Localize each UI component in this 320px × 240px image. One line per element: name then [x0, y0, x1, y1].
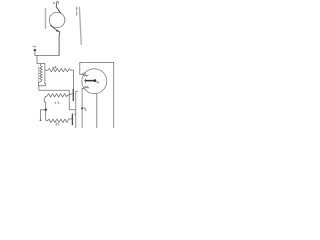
wire (R26 right lead to C1 plate) [67, 94, 73, 96]
label (patent header vertical text, right edge) [79, 7, 81, 44]
anode arrow tail tick [84, 79, 86, 83]
wire (R24 right lead going down) [71, 70, 74, 89]
wire (top lead of M1) [56, 1, 61, 13]
transformer winding zigzag [39, 66, 42, 82]
node (anode dot) [94, 79, 97, 82]
resistor R28 (bottom horizontal) [46, 119, 70, 123]
node (dot on cathode lead) [81, 107, 83, 109]
wire (left divider line down from R26) [44, 97, 46, 120]
resistor R26 (middle horizontal) [46, 94, 68, 97]
label 31 (right of anode dot) [97, 82, 99, 84]
terminal (blob at end of branch) [40, 119, 42, 121]
label 30 (inside tube upper-left) [83, 72, 86, 74]
resistor R24 (top horizontal) [45, 68, 71, 71]
wire (tube bottom centre lead down) [96, 94, 98, 128]
terminal (battery terminal dot) [34, 49, 37, 52]
wire (right line of capacitors going to bottom) [76, 91, 78, 128]
wire (box top y=62.4) [80, 61, 114, 63]
label (small mark near header) [76, 7, 78, 15]
capacitor C1 (left plate, thick) [72, 89, 74, 100]
wire (cathode lead down left) [81, 88, 83, 128]
label 20 (above M1 lead) [54, 1, 59, 3]
label (vertical text column left of M1) [45, 9, 47, 29]
wire (riser jog to winding top) [40, 64, 42, 66]
label 24 (above R24) [53, 66, 56, 68]
wire (transformer bottom to capacitor, y=90.3) [38, 86, 75, 110]
node (junction dot on divider) [45, 108, 48, 111]
capacitor C2 (left plate, thick) [71, 114, 73, 125]
cathode electrode (zigzag inside tube bottom) [82, 86, 89, 88]
grid electrode (zigzag inside tube) [83, 75, 88, 77]
transformer core bar [37, 66, 39, 83]
wire (box right side down) [113, 62, 115, 128]
wire (C2 right plate tick to right line) [74, 113, 76, 115]
node (junction blob on M1 bottom lead) [56, 30, 58, 32]
label 22 (above terminal) [33, 46, 35, 47]
anode arrow (thick line with dot) [85, 80, 93, 82]
wire (branch from dot to lower-left) [40, 110, 44, 120]
wire (terminal down) [34, 51, 36, 55]
wire (R28 right lead) [69, 118, 71, 120]
wire (horizontal bus y=55.4) [35, 54, 59, 56]
tube V1 (envelope circle) [82, 69, 107, 94]
label 32 (right of dot) [84, 108, 86, 111]
wire (U hook under transformer) [38, 82, 45, 86]
transmitter M1 (small circle) [49, 12, 65, 28]
grid wire (box left side into tube) [80, 62, 84, 74]
label 26 (below R26) [55, 102, 59, 104]
transformer T1 (primary drop and frame) [37, 55, 45, 83]
wire (bottom lead of M1 down to corner) [51, 25, 60, 55]
label 21 (right of M1) [64, 19, 66, 21]
label 28 (below R28) [56, 123, 59, 126]
